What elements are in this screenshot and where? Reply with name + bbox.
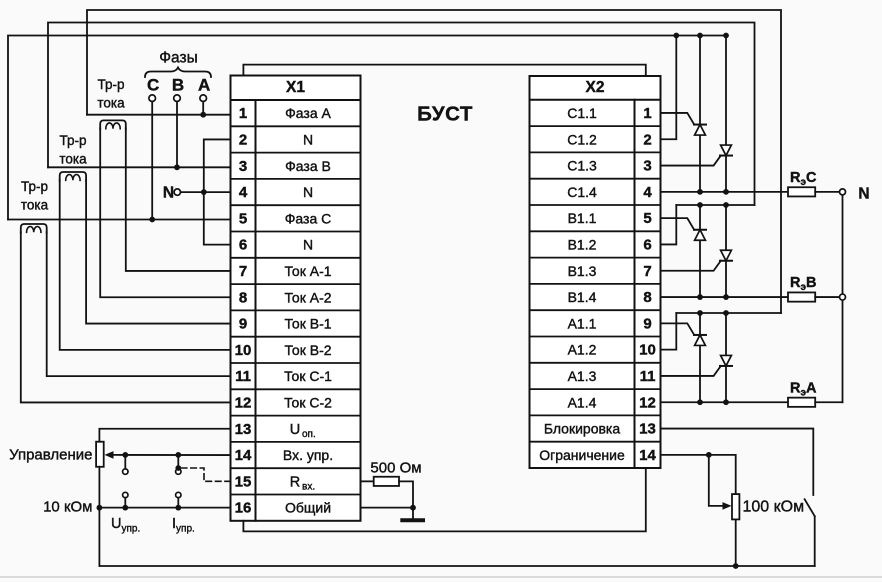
wire: phase C top line (net C)	[8, 36, 726, 220]
svg-text:С1.1: С1.1	[567, 105, 597, 121]
svg-text:Фазы: Фазы	[159, 50, 197, 67]
wire: phase A line into X1 pin 1	[87, 114, 231, 116]
wire: phase C line into X1 pin 5	[8, 219, 231, 221]
svg-text:В1.3: В1.3	[568, 263, 597, 279]
wire: R3 to ground	[399, 481, 413, 520]
svg-text:Ток А-1: Ток А-1	[284, 263, 331, 279]
svg-text:А1.1: А1.1	[568, 315, 597, 331]
wire: phase B top line (net B)	[48, 23, 755, 206]
svg-text:11: 11	[235, 368, 251, 385]
svg-text:тока: тока	[97, 96, 125, 111]
svg-text:9: 9	[239, 316, 247, 333]
wire: X1 pin 15 to resistor R3	[361, 480, 374, 482]
scan artifact line	[0, 576, 882, 578]
wire: R1 wiper to X1 pin 14	[113, 454, 231, 456]
wire: bottom common bus	[99, 565, 814, 567]
svg-text:Х2: Х2	[586, 79, 605, 96]
svg-text:С1.4: С1.4	[567, 184, 597, 200]
junction: pin16 wire / ground leg	[410, 505, 416, 511]
junction: VA2 / output line	[723, 399, 729, 405]
svg-text:5: 5	[643, 210, 651, 227]
thyristor VA1	[699, 313, 701, 402]
svg-text:А: А	[198, 76, 210, 95]
svg-text:R: R	[290, 474, 300, 490]
svg-text:Ток С-1: Ток С-1	[284, 368, 332, 384]
svg-text:Фаза С: Фаза С	[285, 210, 331, 226]
terminal N (left)	[174, 189, 180, 195]
wire: R2 bottom to bus	[735, 519, 737, 566]
wire: phase B bus to thyristors	[676, 204, 754, 206]
svg-text:оп.: оп.	[302, 429, 316, 440]
junction: thyristor VA2 / phase bus	[723, 310, 729, 316]
R2 wiper arrow	[723, 502, 732, 510]
junction: switch SU on wiper wire	[122, 452, 128, 458]
junction: thyristor VA1 / phase bus	[697, 310, 703, 316]
svg-text:8: 8	[643, 289, 651, 306]
wire: R1 top to X1 pin 13	[99, 429, 230, 442]
wire: X2 C1.1 gate to VC1	[661, 113, 695, 125]
svg-text:N: N	[163, 185, 174, 202]
svg-text:А1.4: А1.4	[568, 394, 597, 410]
svg-text:11: 11	[640, 368, 656, 385]
wire: X2 B1.3 gate to VB2	[661, 261, 721, 271]
svg-text:N: N	[303, 184, 313, 200]
junction: thyristor VB2 / phase bus	[723, 202, 729, 208]
svg-text:тока: тока	[59, 152, 87, 167]
wire: RэB to N	[815, 296, 842, 298]
svg-text:Ток С-2: Ток С-2	[284, 394, 332, 410]
svg-text:N: N	[303, 131, 313, 147]
wire: phase A top line (net A)	[87, 10, 781, 313]
ground	[402, 518, 423, 522]
svg-text:12: 12	[639, 394, 656, 411]
junction: VC1 / output line	[697, 189, 703, 195]
svg-text:10 кОм: 10 кОм	[43, 499, 92, 516]
svg-text:Тр-р: Тр-р	[98, 77, 125, 92]
junction: dashed tap on SI	[175, 465, 181, 471]
svg-text:13: 13	[235, 421, 252, 438]
wire: X1 pin 16 Общий to ground leg	[361, 507, 414, 509]
svg-text:7: 7	[239, 263, 247, 280]
svg-text:В: В	[172, 76, 184, 95]
svg-text:12: 12	[235, 394, 252, 411]
svg-text:15: 15	[235, 473, 252, 490]
wire: R1 bottom to bus	[98, 467, 100, 566]
junction: N wire / N bracket	[201, 189, 207, 195]
svg-text:16: 16	[235, 500, 252, 517]
svg-text:10: 10	[639, 342, 656, 359]
svg-text:С1.3: С1.3	[567, 158, 597, 174]
thyristor VA2	[725, 313, 727, 402]
wire: link X1 top to X2 top	[243, 65, 645, 76]
svg-text:U: U	[290, 422, 300, 438]
junction: switch SU / 10 кОм line	[122, 505, 128, 511]
svg-text:Ограничение: Ограничение	[539, 447, 625, 463]
wire: link X1 bottom to X2 bottom	[243, 468, 645, 531]
brace over phase terminals	[145, 68, 211, 78]
wire: X2 pin14 Ограничение to potentiometer R2	[661, 455, 736, 494]
connector X1 body	[231, 76, 361, 521]
connector X2 body	[530, 76, 661, 468]
switch S1 (Блокировка) blade	[805, 499, 815, 516]
wire: phase A bus to thyristors	[676, 312, 781, 314]
svg-text:Управление: Управление	[9, 447, 92, 464]
wire: X2 A1.1 gate to VA1	[661, 323, 695, 335]
switch SU (Uупр.)	[124, 455, 126, 468]
resistor RэA	[788, 398, 815, 407]
current transformer Тр-р тока (phase B) to X1 pins 9,10	[60, 172, 86, 181]
wire: RэC to N	[815, 191, 842, 193]
svg-text:Ток В-1: Ток В-1	[284, 316, 331, 332]
resistor RэB	[788, 292, 815, 301]
svg-text:Блокировка: Блокировка	[544, 421, 621, 437]
junction: VB2 / output line	[723, 294, 729, 300]
wire: phase B line into X1 pin 3	[48, 166, 231, 168]
svg-text:3: 3	[643, 158, 651, 175]
svg-text:500 Ом: 500 Ом	[370, 460, 421, 477]
junction terminal at RэB	[840, 294, 846, 300]
junction: switch SI / 10 кОм line	[175, 505, 181, 511]
svg-text:13: 13	[639, 421, 656, 438]
svg-text:С: С	[147, 76, 159, 95]
wire: X2 A1.4 output line	[661, 401, 789, 403]
wire: N vertical (right)	[842, 192, 844, 402]
terminal N (right, at RэC)	[840, 189, 846, 195]
thyristor VC1	[699, 36, 701, 192]
junction: VC2 / output line	[723, 189, 729, 195]
svg-text:8: 8	[239, 289, 247, 306]
junction: wiper branch on pin14 wire	[706, 452, 712, 458]
svg-text:1: 1	[643, 105, 651, 122]
resistor RэC	[788, 187, 815, 196]
svg-text:4: 4	[643, 184, 652, 201]
svg-text:7: 7	[643, 263, 651, 280]
wire: X2 B1.2 to phase bus	[661, 205, 677, 244]
junction: VA1 / output line	[697, 399, 703, 405]
svg-text:4: 4	[239, 184, 248, 201]
terminal A	[200, 95, 207, 102]
svg-text:Тр-р: Тр-р	[21, 179, 48, 194]
svg-text:14: 14	[639, 447, 656, 464]
svg-text:1: 1	[239, 105, 247, 122]
current transformer Тр-р тока (phase A) to X1 pins 7,8	[100, 120, 126, 129]
thyristor VC2	[725, 36, 727, 192]
svg-text:Общий: Общий	[285, 500, 331, 516]
svg-text:тока: тока	[21, 198, 49, 213]
svg-text:N: N	[858, 185, 869, 202]
svg-text:В1.4: В1.4	[568, 289, 597, 305]
current transformer Тр-р тока (phase C) to X1 pins 11,12	[21, 224, 47, 233]
thyristor VB1	[699, 205, 701, 297]
svg-text:6: 6	[643, 236, 651, 253]
svg-text:Тр-р: Тр-р	[60, 133, 87, 148]
terminal C	[149, 95, 156, 102]
wire: X2 A1.2 to phase bus	[661, 313, 677, 350]
switch SI (Iупр.)	[177, 455, 179, 468]
svg-text:В1.1: В1.1	[568, 210, 597, 226]
wire: RэA to N	[815, 401, 842, 403]
wire: X2 C1.2 to phase bus	[661, 36, 677, 140]
wire: X2 B1.1 gate to VB1	[661, 218, 695, 230]
junction: thyristor VC2 / phase bus	[723, 33, 729, 39]
svg-text:Вх. упр.: Вх. упр.	[283, 447, 333, 463]
wire: switch S1 to bottom bus	[814, 516, 816, 566]
thyristor VB2	[725, 205, 727, 297]
junction: R2 / bottom bus	[733, 563, 739, 569]
junction: C1.2 riser / phase C line	[673, 33, 679, 39]
potentiometer R2 body	[732, 494, 739, 519]
svg-text:В1.2: В1.2	[568, 236, 597, 252]
svg-text:Ток В-2: Ток В-2	[284, 342, 331, 358]
junction: switch SI on wiper wire	[175, 452, 181, 458]
wire: 10 кОм line to X1 pin 16	[99, 507, 230, 509]
svg-text:Фаза В: Фаза В	[285, 158, 331, 174]
svg-text:2: 2	[239, 131, 247, 148]
svg-text:БУСТ: БУСТ	[417, 103, 473, 126]
svg-text:Фаза А: Фаза А	[285, 105, 331, 121]
svg-text:9: 9	[643, 315, 651, 332]
wire (dashed): SI to X1 pin 15 Rвх.	[181, 468, 230, 481]
svg-text:3: 3	[239, 158, 247, 175]
wire: X2 B1.4 output line	[661, 296, 789, 298]
svg-text:5: 5	[239, 210, 247, 227]
wire: N bracket tying X1 pins 2,4,6	[204, 139, 231, 244]
junction: thyristor VB1 / phase bus	[697, 202, 703, 208]
wire: X2 C1.4 output line	[661, 191, 789, 193]
resistor R3 body	[374, 477, 399, 486]
svg-text:вх.: вх.	[302, 481, 315, 492]
wire: X2 pin13 Блокировка to switch	[661, 429, 814, 495]
wire: X2 A1.3 gate to VA2	[661, 366, 721, 376]
R1 wiper arrow	[105, 451, 114, 459]
wire: X2 C1.3 gate to VC2	[661, 156, 721, 166]
svg-text:С1.2: С1.2	[567, 131, 597, 147]
svg-text:14: 14	[235, 447, 252, 464]
junction: VB1 / output line	[697, 294, 703, 300]
svg-text:Ток А-2: Ток А-2	[284, 289, 331, 305]
svg-text:Х1: Х1	[286, 79, 305, 96]
svg-text:А1.3: А1.3	[568, 368, 597, 384]
potentiometer R1 body	[96, 442, 104, 467]
junction: R1 bottom / 10 кОм line	[97, 505, 103, 511]
svg-text:N: N	[303, 237, 313, 253]
svg-text:А1.2: А1.2	[568, 342, 597, 358]
wire: R2 wiper branch	[709, 455, 725, 506]
svg-text:2: 2	[643, 131, 651, 148]
svg-text:10: 10	[235, 342, 252, 359]
svg-text:6: 6	[239, 237, 247, 254]
svg-text:100 кОм: 100 кОм	[743, 499, 805, 516]
junction: thyristor VC1 / phase bus	[697, 33, 703, 39]
wire: N terminal to X1 pin 4	[181, 191, 231, 193]
terminal B	[174, 95, 181, 102]
